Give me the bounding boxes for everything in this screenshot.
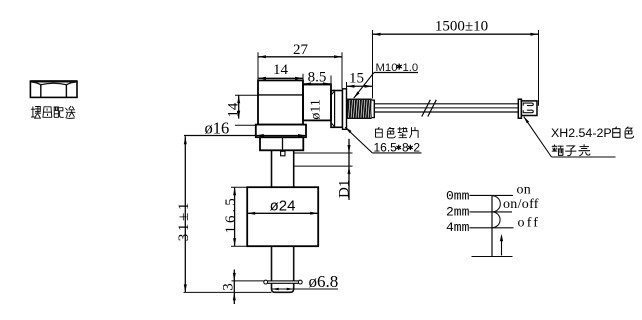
hex collar bbox=[331, 91, 343, 128]
mounting flange (Ø16) bbox=[256, 125, 306, 138]
neck (8.5 section) bbox=[303, 85, 331, 121]
upper stem bbox=[272, 150, 294, 187]
dimension Ø11 (rotated) bbox=[309, 99, 324, 119]
note: white gasket 16.5*8*2 with leader bbox=[345, 127, 421, 154]
dimension 15 (thread length) bbox=[347, 70, 373, 89]
connector pin 2 bbox=[523, 110, 533, 113]
bottom datum line bbox=[184, 291, 272, 293]
dimension 31±1 overall (rotated) bbox=[176, 136, 192, 292]
dimension 27 bbox=[258, 42, 342, 89]
white gasket bbox=[343, 89, 347, 130]
thread spec M10*1.0 with leader bbox=[354, 62, 418, 98]
dimension 3 (rotated) bbox=[220, 270, 264, 305]
float (Ø24) bbox=[247, 187, 318, 246]
svg-text:ø11: ø11 bbox=[309, 99, 324, 119]
svg-text:off: off bbox=[518, 216, 541, 231]
dimension 1500±10 (cable length) bbox=[373, 18, 539, 106]
svg-text:ø16: ø16 bbox=[205, 118, 230, 137]
dimension 8.5 bbox=[303, 69, 331, 90]
thread tip bbox=[372, 100, 375, 119]
svg-text:1500±10: 1500±10 bbox=[435, 18, 488, 34]
dimension Ø24 bbox=[247, 198, 318, 215]
dimension 16.5 float height (rotated) bbox=[223, 187, 247, 246]
label Ø16 with leader bbox=[184, 118, 306, 137]
svg-text:XH2.54-2P: XH2.54-2P bbox=[551, 126, 612, 140]
svg-text:14: 14 bbox=[273, 62, 289, 78]
flange step 2 bbox=[260, 137, 303, 150]
svg-text:ø24: ø24 bbox=[270, 198, 296, 215]
svg-text:2: 2 bbox=[413, 140, 420, 154]
svg-text:ø6.8: ø6.8 bbox=[309, 272, 339, 291]
svg-text:31±1: 31±1 bbox=[176, 200, 192, 241]
dimension 14 (top) bbox=[258, 62, 303, 81]
dimension Ø6.8 bbox=[272, 272, 339, 291]
svg-text:16.5: 16.5 bbox=[223, 195, 239, 233]
svg-text:2mm: 2mm bbox=[446, 205, 470, 220]
connector body bbox=[521, 101, 537, 116]
stem hole bbox=[281, 151, 285, 156]
connector pin 1 bbox=[523, 103, 533, 106]
svg-text:on/off: on/off bbox=[503, 197, 539, 212]
cable break symbol bbox=[422, 100, 437, 117]
hex nut icon bbox=[30, 81, 77, 97]
M10 thread bbox=[347, 99, 372, 120]
svg-text:8: 8 bbox=[402, 140, 409, 154]
svg-text:15: 15 bbox=[349, 70, 364, 86]
switch body bbox=[258, 80, 303, 124]
retaining clip bbox=[264, 280, 302, 284]
cable wires bbox=[374, 104, 518, 112]
svg-text:8.5: 8.5 bbox=[308, 69, 327, 85]
svg-text:27: 27 bbox=[293, 42, 309, 58]
svg-text:0mm: 0mm bbox=[446, 189, 470, 204]
svg-text:14: 14 bbox=[226, 102, 242, 118]
svg-text:3: 3 bbox=[220, 283, 236, 291]
dimension 14 vertical (rotated) bbox=[226, 95, 258, 125]
svg-text:4mm: 4mm bbox=[446, 220, 470, 235]
note: XH2.54-2P connector with leader bbox=[524, 116, 634, 157]
dimension D1 (rotated) bbox=[294, 139, 353, 200]
connector collar bbox=[518, 99, 521, 118]
svg-text:on: on bbox=[517, 182, 532, 197]
switch state chart bbox=[446, 182, 540, 256]
svg-text:D1: D1 bbox=[336, 180, 352, 198]
lower stem with rounded end bbox=[272, 246, 294, 292]
svg-text:16.5: 16.5 bbox=[374, 140, 398, 154]
label: nut supplied (CJK) bbox=[31, 107, 75, 119]
